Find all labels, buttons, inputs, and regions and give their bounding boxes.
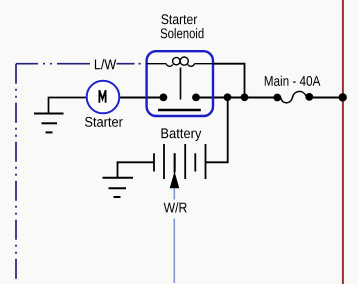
ground G1 — [34, 114, 64, 133]
starter solenoid box — [147, 51, 213, 116]
wire: left dash-dot vertical — [15, 64, 17, 281]
wire: coil to junction (x=244) — [214, 64, 245, 94]
solenoid contact right — [192, 94, 200, 102]
label Starter — [85, 117, 123, 127]
label Main - 40A — [265, 76, 321, 86]
solenoid contact left — [160, 94, 168, 102]
junction node (coil feed) — [241, 93, 249, 101]
label L/W — [95, 59, 116, 69]
label Battery — [162, 128, 202, 141]
label Starter Solenoid — [161, 14, 204, 38]
wire W/R arrow stem (black) — [174, 153, 176, 173]
wire W/R (light blue) lower — [173, 219, 175, 284]
battery B1 — [154, 144, 206, 179]
junction node (bus tap) — [339, 93, 347, 101]
wire: battery positive lead up to bus — [206, 98, 228, 163]
arrowhead pointing up at battery — [170, 172, 180, 189]
solenoid armature — [180, 68, 182, 100]
junction node (battery feed) — [224, 93, 232, 101]
ground G2 — [103, 178, 134, 197]
red power bus line — [342, 0, 344, 284]
wire: L/W dash-dot horizontal branch — [16, 63, 147, 65]
solenoid contact bar — [158, 109, 201, 112]
solenoid coil — [147, 57, 214, 66]
starter motor M1 — [87, 81, 120, 114]
label W/R — [164, 202, 187, 212]
wire: battery negative lead to ground — [118, 162, 155, 177]
wire: main horizontal bus at y=97 — [119, 97, 343, 99]
wire: motor left lead to ground — [49, 98, 87, 114]
wire W/R (light blue) upper — [173, 188, 175, 200]
fuse Main 40A — [273, 91, 313, 102]
